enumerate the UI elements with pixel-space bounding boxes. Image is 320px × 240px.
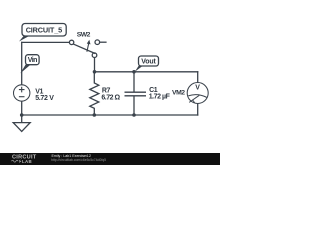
svg-text:Vin: Vin	[28, 57, 37, 64]
SW2 right terminal circle	[95, 40, 100, 45]
junction dot at R7 bottom	[93, 113, 97, 117]
SW2 left terminal circle	[69, 40, 73, 44]
junction dot at C1 bottom	[132, 113, 136, 117]
svg-text:LAB: LAB	[22, 159, 32, 164]
svg-text:CIRCUIT_5: CIRCUIT_5	[26, 26, 62, 35]
voltmeter VM2	[187, 83, 208, 104]
junction dot at switch/R7 node	[93, 70, 97, 74]
footer bar	[0, 153, 220, 165]
footer logo wave	[12, 160, 19, 162]
meter tick	[192, 100, 194, 103]
node flag Vout	[135, 56, 159, 72]
wire: left vertical from node CIRCUIT_5 down to V1 top	[21, 42, 23, 85]
svg-text:Vout: Vout	[141, 58, 156, 65]
svg-text:SW2: SW2	[77, 32, 91, 39]
node flag Vin	[20, 55, 39, 74]
wire: V1 bottom lead	[21, 101, 23, 115]
wire: VM2 bottom lead	[197, 104, 199, 115]
SW2 lever	[73, 44, 96, 54]
switch SW2	[69, 40, 106, 58]
meter scale arc	[188, 95, 207, 98]
resistor R7	[90, 72, 99, 115]
wire: switch pivot down to Vout rail	[94, 58, 96, 72]
SW2 toggle arrow	[87, 43, 89, 52]
svg-text:1.72 µF: 1.72 µF	[149, 94, 171, 101]
wire: top horizontal to switch left terminal	[22, 41, 69, 43]
footer logo bolt	[19, 159, 22, 163]
svg-text:6.72 Ω: 6.72 Ω	[101, 95, 120, 102]
svg-text:VM2: VM2	[172, 89, 185, 96]
meter needle	[189, 95, 199, 102]
junction dot at V1 bottom node	[20, 113, 24, 117]
wire: Vout top rail	[95, 71, 198, 73]
svg-text:V: V	[195, 85, 200, 92]
svg-text:5.72 V: 5.72 V	[35, 95, 54, 102]
node flag CIRCUIT_5	[19, 24, 66, 42]
ground	[13, 115, 30, 131]
SW2 right terminal stub	[100, 41, 107, 43]
capacitor C1	[125, 72, 147, 115]
wire: VM2 top lead	[197, 72, 199, 83]
svg-text:http://circuitlab.com/c6e5c5c7: http://circuitlab.com/c6e5c5c74d0fq5	[51, 158, 106, 162]
junction dot at C1 top	[132, 70, 136, 74]
SW2 pivot circle	[92, 53, 97, 58]
wire: bottom ground rail	[22, 114, 198, 116]
voltage source V1	[14, 85, 30, 101]
